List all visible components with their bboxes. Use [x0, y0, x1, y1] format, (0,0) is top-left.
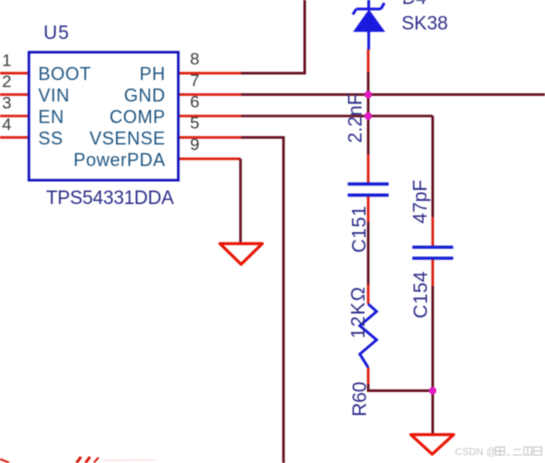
- wire C151 bottom to R60 top: [367, 222, 370, 285]
- wire R60 bottom corner to junction: [368, 384, 433, 391]
- svg-text:SS: SS: [38, 128, 63, 148]
- wire VSENSE net: right then down to bottom edge: [241, 137, 284, 463]
- svg-text:BOOT: BOOT: [38, 64, 91, 84]
- wire pin5 VSENSE stub: [178, 136, 241, 139]
- svg-text:D4: D4: [402, 0, 427, 9]
- diode D4 (Schottky SK38): [353, 0, 385, 50]
- wire between junction dots: [367, 95, 370, 116]
- wire PowerPDA vertical down to ground: [239, 159, 242, 243]
- wire diode to GND row dark part: [367, 72, 370, 95]
- diode top lead blue: [367, 0, 370, 9]
- wire pin7 GND stub: [178, 93, 241, 96]
- capacitor C151 plates: [348, 184, 389, 195]
- wire COMP junction down dark part: [367, 116, 370, 155]
- svg-text:SK38: SK38: [402, 13, 448, 34]
- resistor R60 bottom lead red: [367, 368, 370, 385]
- ground symbol 1 (PowerPDA): [220, 244, 262, 265]
- svg-text:47pF: 47pF: [410, 180, 431, 224]
- ground symbol 2 (bottom): [411, 435, 454, 455]
- wire pin2 VIN stub: [0, 93, 29, 96]
- svg-text:PowerPDA: PowerPDA: [73, 150, 165, 170]
- wire pin4 SS stub: [0, 136, 29, 139]
- wire PH net: right then up to top edge: [241, 0, 305, 73]
- svg-text:COMP: COMP: [110, 107, 166, 127]
- capacitor C154 bottom lead red: [431, 259, 434, 286]
- capacitor C154 plates: [412, 247, 453, 258]
- svg-text:9: 9: [190, 135, 199, 154]
- diode triangle: [354, 10, 384, 31]
- svg-text:3: 3: [2, 94, 11, 113]
- svg-text:TPS54331DDA: TPS54331DDA: [46, 188, 174, 209]
- diode bottom lead blue: [367, 31, 370, 50]
- wire pin3 EN stub: [0, 115, 29, 118]
- svg-text:12KΩ: 12KΩ: [348, 286, 369, 339]
- svg-text:5: 5: [190, 114, 199, 133]
- wire GND net horizontal to right edge: [241, 93, 545, 96]
- resistor R60 zigzag: [360, 304, 377, 368]
- resistor R60 top lead red: [367, 285, 370, 305]
- svg-text:U5: U5: [44, 23, 70, 44]
- junction node at COMP row: [365, 112, 372, 119]
- svg-text:2.2nF: 2.2nF: [346, 93, 367, 143]
- IC U5 box: [29, 52, 178, 180]
- capacitor C154 top lead red: [431, 217, 434, 246]
- wire pin6 COMP stub: [178, 115, 241, 118]
- svg-text:EN: EN: [38, 107, 64, 127]
- svg-text:PH: PH: [139, 64, 165, 84]
- wire COMP net horizontal to C154 corner: [241, 115, 433, 118]
- partial red marks at bottom edge: [77, 457, 91, 463]
- svg-text:1: 1: [2, 51, 11, 70]
- capacitor C151 top lead red: [367, 155, 370, 183]
- svg-text:4: 4: [2, 115, 11, 134]
- wire junction down to ground 2: [431, 391, 434, 434]
- junction node at R60/C154 bottom: [429, 387, 436, 394]
- capacitor C151 bottom lead red: [367, 197, 370, 223]
- svg-text:R60: R60: [350, 382, 371, 417]
- wire C154 branch vertical upper dark part: [431, 116, 434, 217]
- svg-text:GND: GND: [124, 86, 166, 106]
- wire pin8 PH stub: [178, 72, 241, 75]
- svg-text:VSENSE: VSENSE: [89, 128, 165, 148]
- wire pin9 PowerPDA stub: [178, 158, 241, 161]
- svg-text:2: 2: [2, 72, 11, 91]
- diode cathode bar with schottky hooks: [353, 3, 385, 15]
- diode D4 lower lead red part: [367, 50, 370, 73]
- wire pin1 BOOT stub: [0, 72, 29, 75]
- svg-text:C151: C151: [350, 205, 371, 252]
- svg-text:CSDN @: CSDN @: [455, 447, 496, 458]
- svg-text:C154: C154: [411, 271, 432, 318]
- svg-text:8: 8: [190, 50, 199, 69]
- svg-text:7: 7: [190, 71, 199, 90]
- wire C154 bottom dark part: [431, 286, 434, 391]
- svg-text:VIN: VIN: [38, 86, 70, 106]
- svg-text:6: 6: [190, 92, 199, 111]
- junction node at GND row / diode: [365, 91, 372, 98]
